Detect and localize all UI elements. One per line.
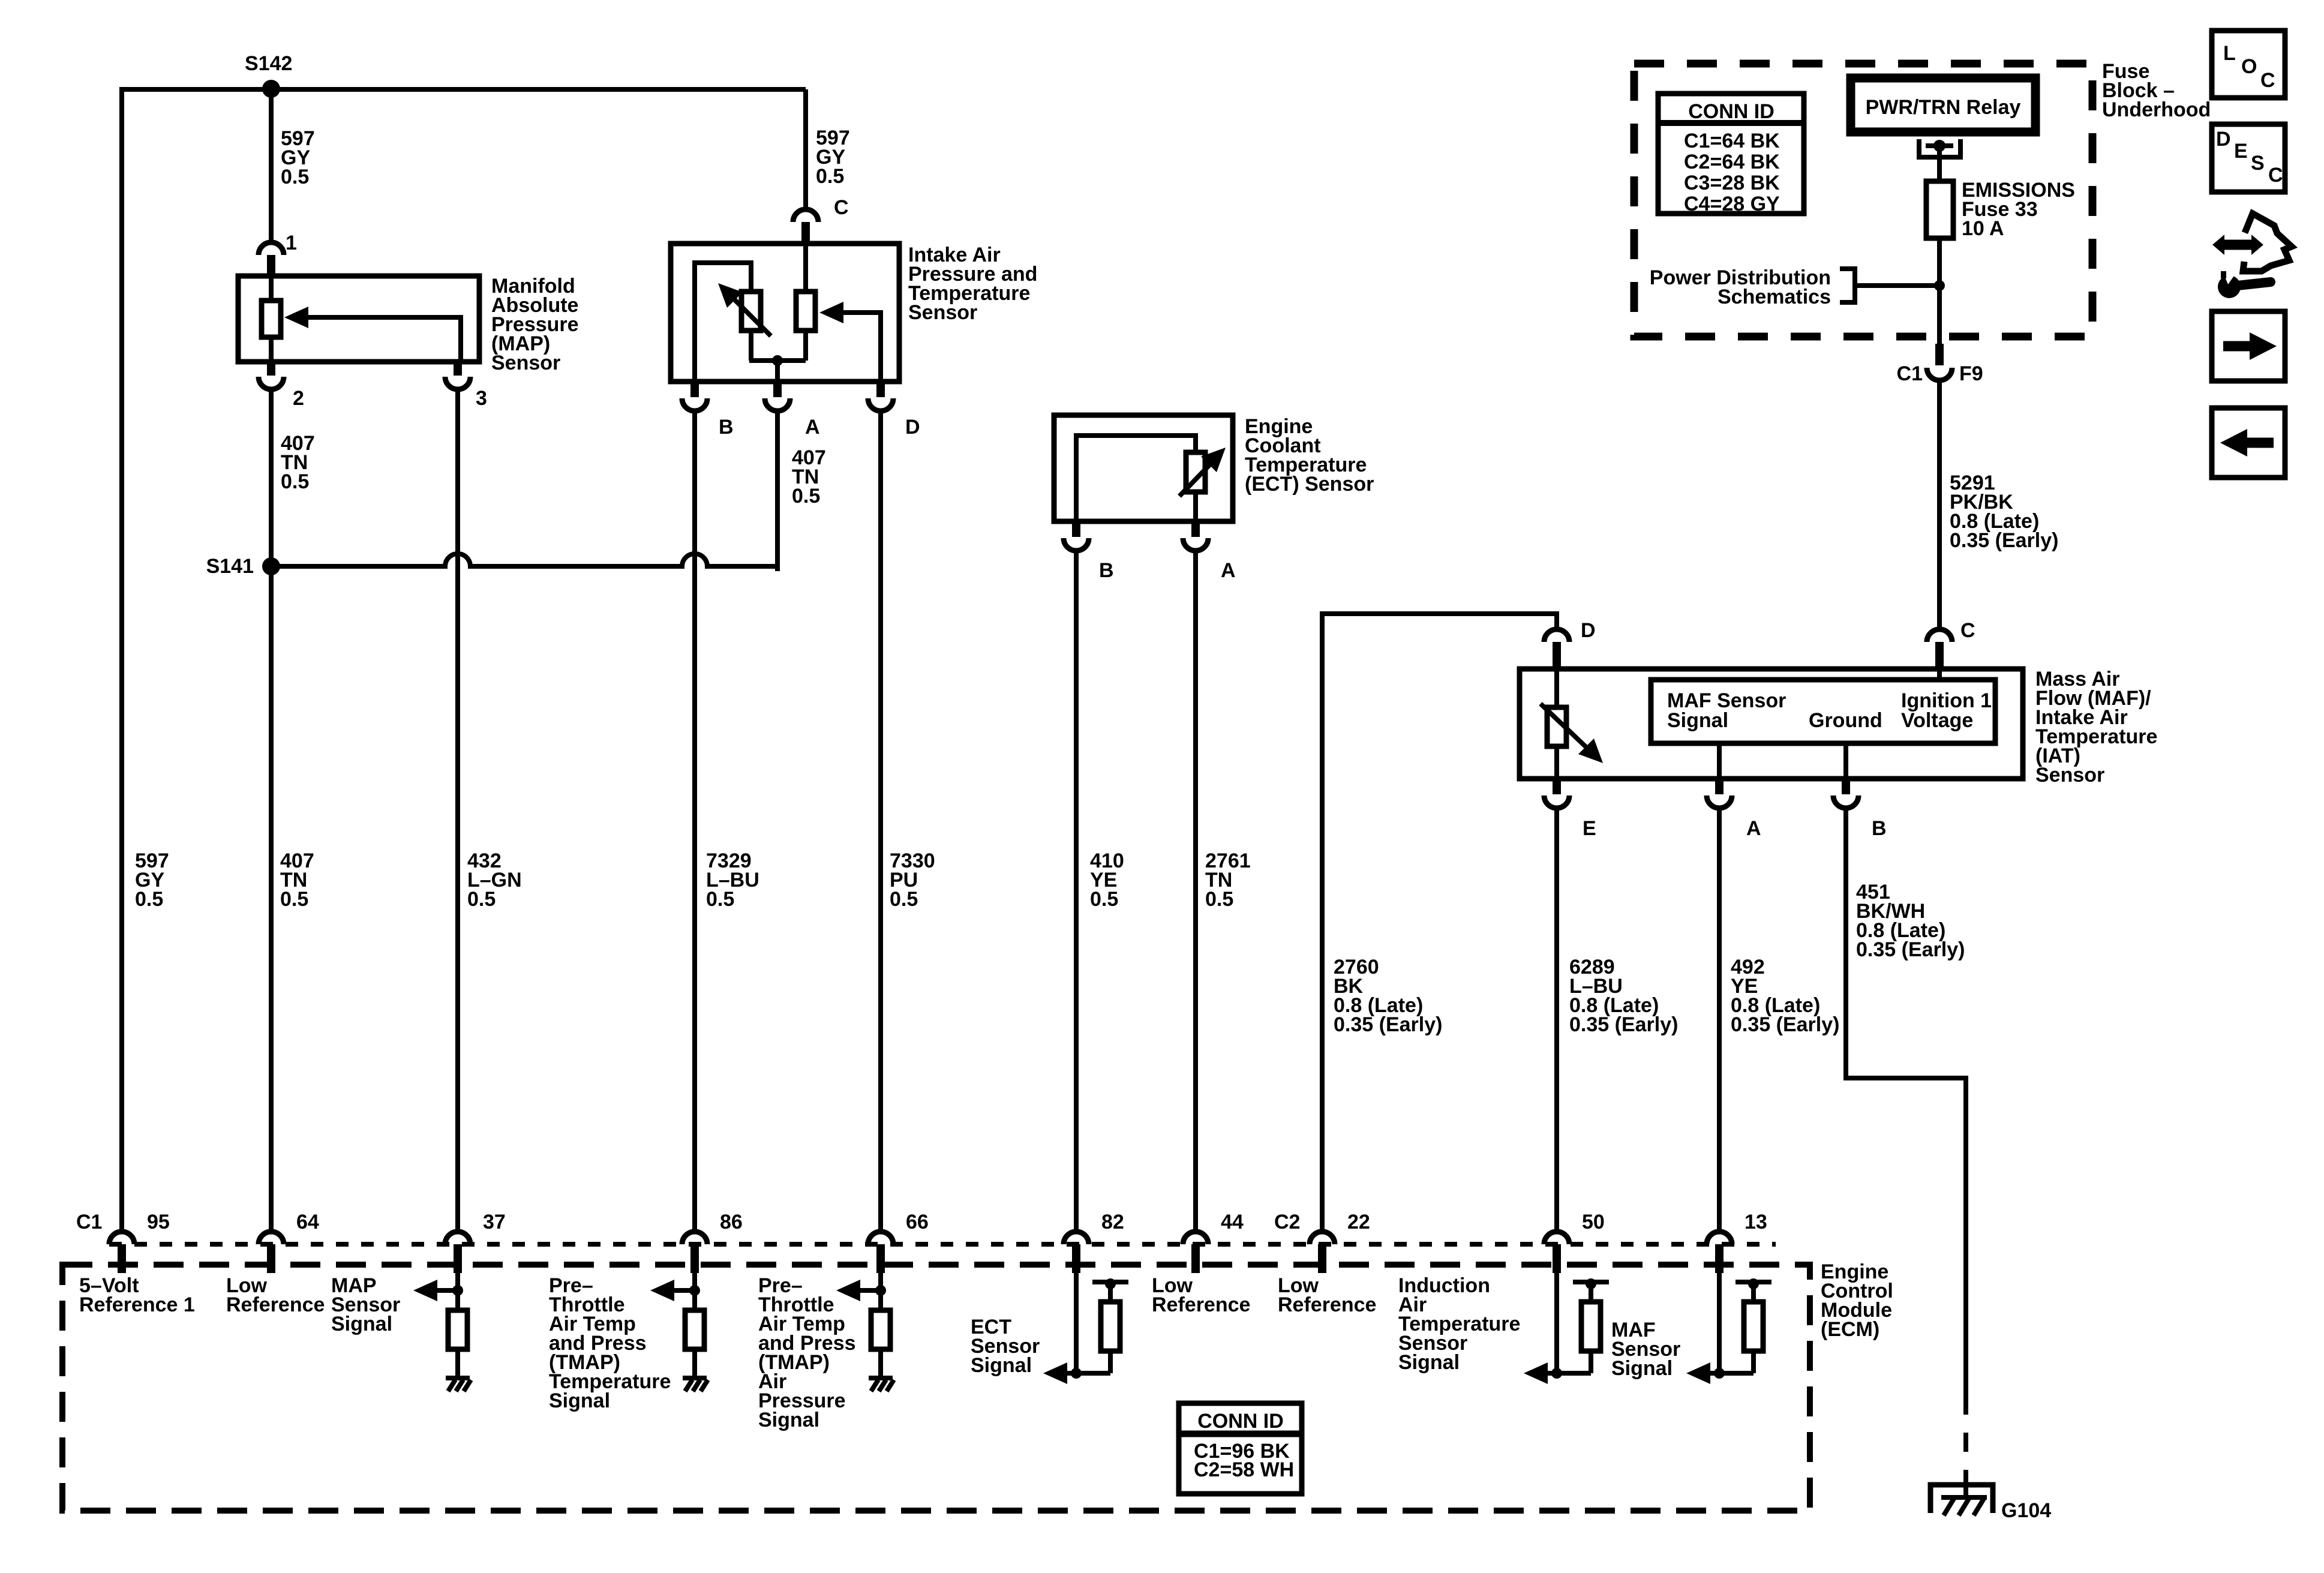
pin label C1 bbox=[1897, 362, 1923, 385]
icon button back arrow bbox=[2212, 408, 2285, 478]
label Engine Control Module (ECM) bbox=[1821, 1260, 1893, 1341]
wire label 2761 TN 0.5 bbox=[1205, 849, 1251, 911]
pin label 82 bbox=[1101, 1211, 1124, 1233]
pin label 22 bbox=[1347, 1211, 1370, 1233]
pin label C (MAF) bbox=[1960, 619, 1975, 642]
svg-text:0.5: 0.5 bbox=[1090, 888, 1118, 911]
svg-text:2: 2 bbox=[293, 387, 304, 410]
svg-text:E: E bbox=[2234, 140, 2248, 163]
pin label 86 bbox=[720, 1211, 743, 1233]
svg-text:82: 82 bbox=[1101, 1211, 1124, 1233]
MAF inner module box bbox=[1651, 669, 1995, 743]
wire label 410 YE 0.5 bbox=[1090, 849, 1124, 911]
connector ECM pin 66 bbox=[868, 1232, 893, 1273]
svg-text:C: C bbox=[2260, 69, 2275, 92]
MAP wiper arrow from pin 3 bbox=[284, 307, 461, 362]
svg-text:95: 95 bbox=[147, 1211, 170, 1233]
svg-text:(ECT) Sensor: (ECT) Sensor bbox=[1245, 473, 1374, 496]
wire 492 YE from MAF pin A to ECM pin 13 bbox=[1717, 808, 1722, 1232]
svg-text:0.35 (Early): 0.35 (Early) bbox=[1950, 529, 2058, 552]
svg-text:C: C bbox=[2268, 164, 2283, 187]
label MAF Sensor Signal bbox=[1611, 1319, 1680, 1380]
fuse block dashed boundary bbox=[1634, 64, 2092, 337]
label EMISSIONS Fuse 33 10 A bbox=[1962, 179, 2075, 240]
svg-text:S: S bbox=[2251, 152, 2265, 175]
wire label 492 YE bbox=[1731, 956, 1839, 1036]
svg-text:1: 1 bbox=[286, 232, 297, 254]
svg-text:0.5: 0.5 bbox=[281, 166, 309, 188]
wire from relay to fuse bbox=[1937, 146, 1942, 181]
pin label A bbox=[805, 416, 820, 439]
connector MAF pin B bbox=[1833, 779, 1858, 808]
svg-text:Reference: Reference bbox=[226, 1293, 325, 1316]
pin label B bbox=[719, 416, 734, 439]
svg-text:B: B bbox=[1872, 817, 1887, 840]
resistor MAP sensing element bbox=[262, 276, 281, 362]
connector MAP pin 2 bbox=[259, 362, 284, 389]
svg-text:37: 37 bbox=[483, 1211, 506, 1233]
svg-text:Signal: Signal bbox=[1667, 709, 1728, 732]
svg-text:D: D bbox=[905, 416, 920, 439]
connector MAF pin D bbox=[1544, 629, 1569, 669]
ECM input resistor and ground (pin 37) bbox=[413, 1273, 471, 1391]
pin label 66 bbox=[906, 1211, 929, 1233]
TMAP internal junction bbox=[772, 355, 783, 382]
wire label 597 GY 0.5 bbox=[135, 849, 169, 911]
svg-text:A: A bbox=[805, 416, 820, 439]
svg-text:0.5: 0.5 bbox=[792, 485, 820, 508]
svg-text:Sensor: Sensor bbox=[908, 301, 977, 324]
wire label 6289 L-BU bbox=[1569, 956, 1678, 1036]
connector C1 F9 bbox=[1927, 344, 1952, 380]
svg-text:(ECM): (ECM) bbox=[1821, 1318, 1879, 1341]
wire from fuse to connector C1/F9 bbox=[1937, 238, 1942, 344]
svg-text:B: B bbox=[719, 416, 734, 439]
CONN ID table (fuse block) bbox=[1658, 94, 1804, 215]
svg-text:C2=58 WH: C2=58 WH bbox=[1194, 1458, 1294, 1481]
ECM dashed boundary bbox=[62, 1265, 1810, 1511]
svg-text:Sensor: Sensor bbox=[2035, 764, 2104, 786]
pin label A (MAF) bbox=[1746, 817, 1761, 840]
label Low Reference (pin 44) bbox=[1152, 1274, 1250, 1316]
svg-text:0.5: 0.5 bbox=[280, 888, 308, 911]
PWR/TRN Relay box bbox=[1851, 78, 2035, 132]
ECM input resistor and ground (pin 66) bbox=[836, 1273, 894, 1391]
MAP sensor box bbox=[238, 276, 479, 362]
wire label 451 BK/WH bbox=[1856, 881, 1965, 961]
connector TMAP pin D bbox=[868, 382, 893, 411]
wire label 432 L-GN 0.5 bbox=[467, 849, 522, 911]
wire label 407 TN 0.5 (MAP) bbox=[281, 432, 315, 493]
connector MAF pin E bbox=[1544, 779, 1569, 808]
connector ECM pin 86 bbox=[682, 1232, 707, 1273]
svg-text:Signal: Signal bbox=[971, 1354, 1032, 1377]
pin label 44 bbox=[1221, 1211, 1244, 1233]
splice S142 bbox=[245, 52, 292, 98]
splice S141 bbox=[206, 555, 280, 578]
pin label 95 bbox=[147, 1211, 170, 1233]
pin label D bbox=[905, 416, 920, 439]
connector MAP pin 3 bbox=[445, 362, 470, 389]
label Induction Air Temperature Sensor Signal bbox=[1398, 1274, 1520, 1374]
svg-text:Underhood: Underhood bbox=[2102, 98, 2211, 121]
svg-text:D: D bbox=[1581, 619, 1596, 642]
wire label 407 TN 0.5 bbox=[280, 849, 314, 911]
svg-text:C: C bbox=[834, 196, 849, 219]
label TMAP Air Pressure Signal bbox=[758, 1274, 856, 1431]
svg-text:22: 22 bbox=[1347, 1211, 1370, 1233]
connector ECM pin 37 bbox=[445, 1232, 470, 1273]
label Intake Air Pressure and Temperature Sensor bbox=[908, 244, 1037, 324]
svg-text:0.5: 0.5 bbox=[281, 470, 309, 493]
ECM input resistor and ground (pin 86) bbox=[650, 1273, 708, 1391]
svg-text:0.5: 0.5 bbox=[135, 888, 163, 911]
connector TMAP pin A bbox=[765, 382, 790, 411]
wire 410 YE from ECT pin B to ECM pin 82 bbox=[1074, 551, 1079, 1232]
connector MAF pin C bbox=[1927, 629, 1952, 669]
svg-text:86: 86 bbox=[720, 1211, 743, 1233]
pin label C bbox=[834, 196, 849, 219]
svg-text:0.5: 0.5 bbox=[1205, 888, 1233, 911]
wire 407 TN from MAP pin 2 to ECM pin 64 bbox=[269, 389, 274, 1232]
icon button forward arrow bbox=[2212, 311, 2285, 381]
svg-text:0.5: 0.5 bbox=[890, 888, 918, 911]
wire 6289 L-BU from MAF pin E to ECM pin 50 bbox=[1554, 808, 1559, 1232]
fuse EMISSIONS Fuse 33 10A bbox=[1926, 181, 1953, 238]
label ECT Sensor Signal bbox=[971, 1316, 1040, 1377]
connector ECM pin 13 bbox=[1707, 1232, 1732, 1273]
svg-text:A: A bbox=[1221, 559, 1236, 582]
connector label C1 (ECM) bbox=[76, 1211, 102, 1233]
wire label 597 GY 0.5 (TMAP) bbox=[816, 127, 850, 188]
svg-text:50: 50 bbox=[1582, 1211, 1605, 1233]
pin label D (MAF) bbox=[1581, 619, 1596, 642]
pin label B (ECT) bbox=[1099, 559, 1114, 582]
svg-text:0.35 (Early): 0.35 (Early) bbox=[1731, 1013, 1839, 1036]
wire label 7329 L-BU 0.5 bbox=[706, 849, 759, 911]
svg-text:C1: C1 bbox=[76, 1211, 102, 1233]
connector ECM pin 95 bbox=[109, 1232, 134, 1273]
pin label 1 bbox=[286, 232, 297, 254]
MAF IAT thermistor bbox=[1541, 669, 1603, 779]
svg-text:66: 66 bbox=[906, 1211, 929, 1233]
svg-text:C: C bbox=[1960, 619, 1975, 642]
wire 432 L-GN from MAP pin 3 to ECM pin 37 bbox=[455, 389, 460, 1232]
ECM connector face dotted line bbox=[109, 1242, 1776, 1247]
svg-text:F9: F9 bbox=[1959, 362, 1983, 385]
wire 2761 TN from ECT pin A to ECM pin 44 bbox=[1193, 551, 1198, 1232]
CONN ID table (ECM) bbox=[1179, 1403, 1302, 1494]
relay terminal bracket bbox=[1919, 139, 1960, 157]
svg-text:C2=64 BK: C2=64 BK bbox=[1684, 151, 1780, 173]
wire label 5291 PK/BK bbox=[1950, 472, 2058, 552]
wire label 2760 BK bbox=[1334, 956, 1442, 1036]
pin label 64 bbox=[296, 1211, 319, 1233]
pin label 2 bbox=[293, 387, 304, 410]
pin label 3 bbox=[476, 387, 487, 410]
svg-text:CONN ID: CONN ID bbox=[1197, 1410, 1284, 1433]
icon button LOC bbox=[2212, 31, 2285, 98]
wire 7330 PU from TMAP pin D to ECM pin 66 bbox=[878, 411, 883, 1232]
pin label E (MAF) bbox=[1583, 817, 1596, 840]
svg-text:64: 64 bbox=[296, 1211, 319, 1233]
label 5-Volt Reference 1 bbox=[79, 1274, 195, 1316]
ground G104 bbox=[1930, 1485, 1993, 1515]
svg-text:0.35 (Early): 0.35 (Early) bbox=[1334, 1013, 1442, 1036]
connector label C2 (ECM) bbox=[1274, 1211, 1300, 1233]
wire 407 TN from TMAP pin A to S141 bbox=[775, 411, 777, 569]
wire 597 GY bus (S142 top rail and left drop to ECM pin 95) bbox=[122, 89, 806, 1232]
wire label 597 GY 0.5 (MAP) bbox=[281, 127, 315, 188]
svg-text:10 A: 10 A bbox=[1962, 217, 2004, 240]
wire 597 GY to TMAP pin C bbox=[803, 89, 808, 209]
connector ECM pin 64 bbox=[259, 1232, 284, 1273]
svg-text:C1: C1 bbox=[1897, 362, 1923, 385]
junction dot (power distribution tap) bbox=[1934, 280, 1945, 291]
label Low Reference (pin 64) bbox=[226, 1274, 325, 1316]
connector ECM pin 82 bbox=[1064, 1232, 1089, 1273]
wire 5291 PK/BK from fuse block to MAF pin C bbox=[1937, 380, 1942, 629]
ECT thermistor bbox=[1076, 436, 1226, 521]
svg-text:44: 44 bbox=[1221, 1211, 1244, 1233]
icon vehicle schematic with wrench bbox=[2212, 214, 2292, 298]
label Manifold Absolute Pressure (MAP) Sensor bbox=[491, 275, 579, 374]
wire 2760 BK from ECM pin 22 to MAF pin D bbox=[1322, 614, 1557, 1232]
connector ECT pin A bbox=[1183, 521, 1208, 551]
svg-text:Signal: Signal bbox=[331, 1313, 392, 1335]
label Engine Coolant Temperature (ECT) Sensor bbox=[1245, 415, 1374, 496]
MAF sensor box bbox=[1520, 669, 2023, 779]
connector ECT pin B bbox=[1064, 521, 1089, 551]
svg-text:Signal: Signal bbox=[549, 1389, 610, 1412]
svg-text:13: 13 bbox=[1744, 1211, 1767, 1233]
ECM pull-up resistor and input arrow (pin 82) bbox=[1043, 1273, 1128, 1384]
TMAP thermistor (IAT element) bbox=[695, 263, 806, 382]
connector MAF pin A bbox=[1707, 779, 1732, 808]
label Mass Air Flow (MAF)/Intake Air Temperature (IAT) Sensor bbox=[2035, 668, 2157, 786]
svg-text:A: A bbox=[1746, 817, 1761, 840]
svg-text:0.5: 0.5 bbox=[706, 888, 734, 911]
TMAP wiper arrow from pin D bbox=[819, 302, 881, 382]
svg-text:Sensor: Sensor bbox=[491, 352, 560, 374]
MAF inner pins to box bottom bbox=[1719, 743, 1846, 779]
svg-text:0.35 (Early): 0.35 (Early) bbox=[1569, 1013, 1678, 1036]
svg-text:L: L bbox=[2223, 42, 2236, 65]
svg-text:E: E bbox=[1583, 817, 1596, 840]
connector TMAP pin C bbox=[793, 209, 818, 244]
ECM pull-up resistor and input arrow (pin 50) bbox=[1524, 1273, 1609, 1384]
wire 597 GY to MAP pin 1 bbox=[269, 89, 274, 242]
svg-text:3: 3 bbox=[476, 387, 487, 410]
wire 451 BK/WH from MAF pin B to ground G104 bbox=[1846, 808, 1966, 1500]
svg-text:CONN ID: CONN ID bbox=[1688, 100, 1774, 123]
svg-text:Signal: Signal bbox=[1611, 1357, 1673, 1380]
svg-text:0.5: 0.5 bbox=[467, 888, 496, 911]
connector ECM pin 44 bbox=[1183, 1232, 1208, 1273]
pin label 50 bbox=[1582, 1211, 1605, 1233]
svg-text:D: D bbox=[2216, 128, 2231, 151]
svg-text:Ground: Ground bbox=[1809, 709, 1882, 732]
svg-text:Schematics: Schematics bbox=[1718, 286, 1831, 308]
label Fuse Block - Underhood bbox=[2102, 60, 2211, 121]
pin label 13 bbox=[1744, 1211, 1767, 1233]
connector TMAP pin B bbox=[682, 382, 707, 411]
svg-text:Voltage: Voltage bbox=[1901, 709, 1973, 732]
connector MAP pin 1 bbox=[259, 242, 284, 276]
svg-text:G104: G104 bbox=[2001, 1499, 2051, 1522]
svg-text:0.35 (Early): 0.35 (Early) bbox=[1856, 938, 1965, 961]
label Low Reference (pin 22) bbox=[1278, 1274, 1376, 1316]
TMAP pressure element resistor bbox=[796, 244, 815, 331]
svg-text:C3=28 BK: C3=28 BK bbox=[1684, 172, 1780, 194]
pin label 37 bbox=[483, 1211, 506, 1233]
label MAP Sensor Signal bbox=[331, 1274, 400, 1335]
svg-text:Reference: Reference bbox=[1152, 1293, 1250, 1316]
TMAP sensor box bbox=[671, 244, 899, 382]
Power Distribution Schematics reference bracket bbox=[1650, 266, 1939, 308]
svg-text:Signal: Signal bbox=[1398, 1351, 1460, 1374]
svg-text:Reference 1: Reference 1 bbox=[79, 1293, 195, 1316]
svg-text:Signal: Signal bbox=[758, 1409, 819, 1431]
svg-text:O: O bbox=[2241, 55, 2257, 78]
svg-text:C1=64 BK: C1=64 BK bbox=[1684, 130, 1780, 152]
wire label 407 TN 0.5 (TMAP A) bbox=[792, 446, 826, 508]
ECT sensor box bbox=[1054, 415, 1233, 521]
pin label A (ECT) bbox=[1221, 559, 1236, 582]
wire S141 jumper to TMAP pin A (with hops) bbox=[271, 554, 780, 566]
svg-text:C4=28 GY: C4=28 GY bbox=[1684, 193, 1780, 215]
svg-text:Reference: Reference bbox=[1278, 1293, 1376, 1316]
ECM pull-up resistor and input arrow (pin 13) bbox=[1686, 1273, 1771, 1384]
wire label 7330 PU 0.5 bbox=[890, 849, 935, 911]
svg-text:S142: S142 bbox=[245, 52, 292, 75]
svg-text:C2: C2 bbox=[1274, 1211, 1300, 1233]
icon button DESC bbox=[2212, 124, 2285, 192]
connector ECM pin 50 bbox=[1544, 1232, 1569, 1273]
wire 7329 L-BU from TMAP pin B to ECM pin 86 bbox=[692, 411, 697, 1232]
label TMAP Temperature Signal bbox=[549, 1274, 671, 1412]
pin label B (MAF) bbox=[1872, 817, 1887, 840]
svg-text:S141: S141 bbox=[206, 555, 254, 578]
pin label F9 bbox=[1959, 362, 1983, 385]
svg-text:B: B bbox=[1099, 559, 1114, 582]
svg-text:PWR/TRN Relay: PWR/TRN Relay bbox=[1866, 96, 2021, 119]
svg-text:0.5: 0.5 bbox=[816, 165, 844, 188]
connector ECM pin 22 bbox=[1310, 1232, 1335, 1273]
ground label G104 bbox=[2001, 1499, 2051, 1522]
